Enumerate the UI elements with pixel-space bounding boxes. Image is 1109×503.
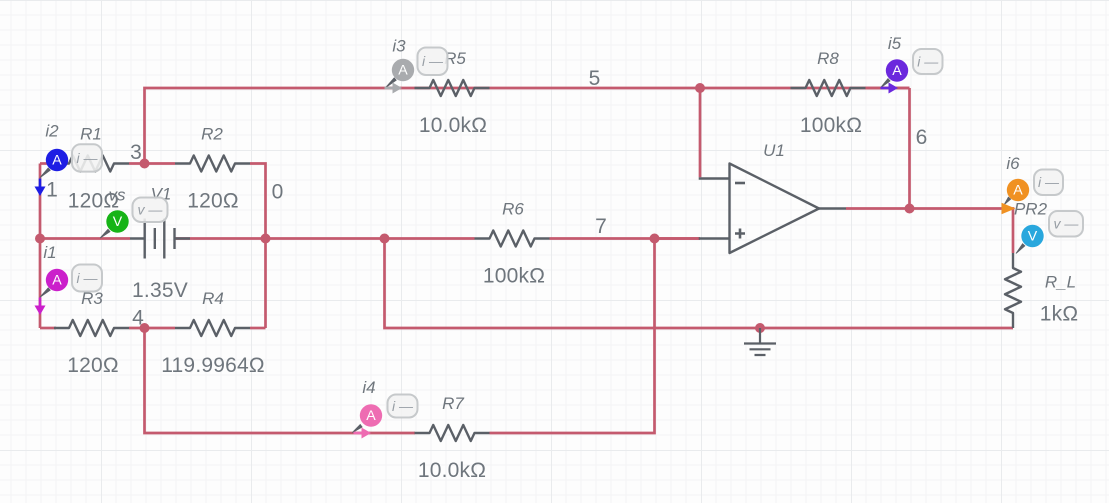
junction mid row (380, 234, 390, 244)
resistor R1 (54, 125, 129, 213)
svg-text:i —: i — (422, 53, 444, 69)
svg-text:i —: i — (1038, 174, 1060, 190)
wire R7 to node 7 column (490, 239, 655, 434)
wire R1 to node 3 (129, 162, 175, 165)
junction battery right node 0 (261, 234, 271, 244)
svg-text:i —: i — (917, 53, 939, 69)
probe vs (100, 186, 168, 239)
svg-text:10.0kΩ: 10.0kΩ (418, 459, 486, 482)
svg-text:i1: i1 (43, 243, 56, 262)
svg-text:V: V (1028, 229, 1038, 245)
svg-text:R2: R2 (201, 125, 223, 144)
svg-text:vs: vs (109, 186, 127, 205)
svg-text:i —: i — (77, 270, 99, 286)
svg-text:PR2: PR2 (1014, 200, 1048, 219)
resistor R4 (161, 289, 265, 377)
svg-text:R6: R6 (502, 200, 524, 219)
wire top row (node 5) (145, 88, 910, 164)
svg-text:10.0kΩ: 10.0kΩ (419, 114, 487, 137)
junction ground (755, 323, 765, 333)
svg-text:i4: i4 (362, 378, 375, 397)
wire node 1 to R1 (40, 162, 54, 165)
svg-text:v —: v — (138, 202, 164, 218)
resistor R_L (1005, 253, 1078, 328)
svg-text:R8: R8 (817, 49, 839, 68)
resistor R3 (54, 289, 129, 377)
wire left column (39, 164, 42, 329)
svg-text:A: A (366, 408, 376, 424)
svg-text:0: 0 (272, 181, 284, 204)
wire mid junction down to ground row (385, 239, 1014, 329)
svg-text:i5: i5 (888, 34, 902, 53)
wire node 4 down to bottom row (145, 328, 416, 433)
wire R6 to node 7 (550, 237, 701, 240)
svg-text:i3: i3 (392, 37, 406, 56)
resistor R8 (791, 49, 866, 137)
probe i1 (35, 243, 103, 315)
wire battery to mid junction (175, 237, 385, 240)
probe i6 (1002, 154, 1064, 214)
svg-text:A: A (892, 63, 902, 79)
wire battery row left (40, 237, 130, 240)
junction node 7 (650, 234, 660, 244)
svg-text:120Ω: 120Ω (187, 190, 239, 213)
junction node 4 (140, 323, 150, 333)
svg-text:i —: i — (392, 398, 414, 414)
svg-text:A: A (398, 63, 408, 79)
svg-text:A: A (52, 273, 62, 289)
svg-text:3: 3 (130, 141, 142, 164)
svg-text:V: V (113, 214, 123, 230)
op-amp U1 (699, 141, 846, 253)
junction node 6 output (905, 204, 915, 214)
svg-text:7: 7 (595, 215, 607, 238)
wire node 7 to opamp plus (655, 237, 701, 240)
wire mid junction to R6 (385, 237, 475, 240)
svg-text:100kΩ: 100kΩ (483, 265, 545, 288)
svg-text:1.35V: 1.35V (132, 279, 188, 302)
svg-text:v —: v — (1054, 216, 1080, 232)
svg-text:U1: U1 (763, 141, 785, 160)
junction top node 5 (695, 83, 705, 93)
wire R2 to corner node 0 (250, 164, 266, 329)
wire R3 left (40, 327, 56, 330)
probe i4 (352, 378, 417, 439)
resistor R6 (475, 200, 550, 288)
battery V1 (130, 185, 190, 303)
svg-text:R_L: R_L (1045, 273, 1076, 292)
svg-text:i2: i2 (45, 122, 59, 141)
wire R3 to node 4 (129, 327, 175, 330)
svg-text:119.9964Ω: 119.9964Ω (161, 354, 265, 377)
resistor R2 (175, 125, 250, 213)
svg-text:i —: i — (77, 150, 99, 166)
svg-text:i6: i6 (1006, 154, 1020, 173)
resistor R7 (415, 394, 490, 482)
probe i5 (880, 34, 942, 94)
probe PR2 (1014, 200, 1083, 254)
probe i3 (385, 37, 448, 94)
svg-text:4: 4 (132, 307, 144, 330)
ground (744, 328, 776, 355)
junction node 3 (140, 159, 150, 169)
svg-text:A: A (1013, 183, 1023, 199)
wire opamp output to R_L top (846, 209, 1013, 254)
svg-text:6: 6 (916, 126, 928, 149)
wire node 6 column (908, 88, 911, 209)
probe i2 (35, 122, 103, 196)
svg-text:1: 1 (46, 179, 58, 202)
svg-text:R7: R7 (442, 394, 464, 413)
resistor R5 (415, 49, 490, 137)
svg-text:1kΩ: 1kΩ (1040, 303, 1078, 326)
svg-text:R1: R1 (80, 125, 102, 144)
svg-text:R4: R4 (202, 289, 224, 308)
svg-text:A: A (52, 153, 62, 169)
junction node 1 battery row (35, 234, 45, 244)
wire R8 right to corner (865, 87, 910, 90)
wire top junction to opamp minus (699, 88, 702, 177)
svg-text:120Ω: 120Ω (67, 354, 119, 377)
svg-text:100kΩ: 100kΩ (800, 114, 862, 137)
wire R4 to corner (250, 327, 266, 330)
svg-text:5: 5 (589, 67, 601, 90)
